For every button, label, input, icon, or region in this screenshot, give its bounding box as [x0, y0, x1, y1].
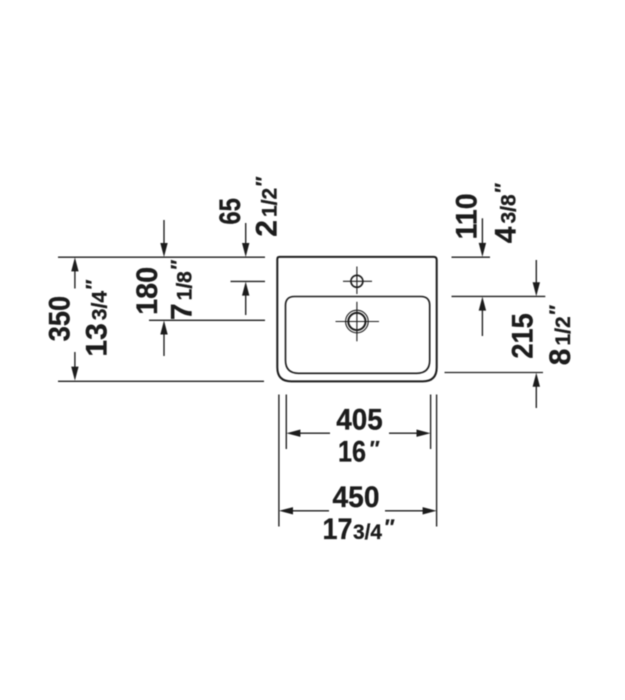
- dimension 350 lower arrowhead: [71, 367, 78, 381]
- extension line outer right bottom: [436, 395, 438, 527]
- dimension 65 upper arrowhead: [242, 243, 249, 257]
- svg-text:43/8″: 43/8″: [490, 183, 523, 243]
- extension line outer left bottom: [278, 395, 280, 527]
- dimension 215 upper arrowhead: [533, 282, 540, 296]
- dimension 110 lower arrow shaft: [481, 309, 483, 337]
- svg-text:350: 350: [43, 296, 76, 342]
- dimension 450 left arrowhead: [279, 507, 293, 514]
- washbasin inner rim outline: [286, 297, 430, 374]
- svg-text:133/4″: 133/4″: [81, 279, 114, 356]
- dimension 215 upper arrow shaft: [535, 260, 537, 285]
- dimension 450 left arrow shaft: [291, 510, 329, 512]
- svg-text:″: ″: [370, 437, 380, 460]
- svg-text:17: 17: [323, 513, 353, 546]
- extension line bottom edge left: [58, 380, 264, 382]
- drain outer circle: [346, 310, 369, 333]
- dimension 65 lower arrow shaft: [245, 294, 247, 316]
- dimension 450 right arrowhead: [423, 507, 437, 514]
- svg-text:16: 16: [338, 436, 366, 469]
- dimension 110 upper arrowhead: [479, 243, 486, 257]
- dimension 350 lower arrow shaft: [74, 352, 76, 369]
- dimension 65 upper arrow shaft: [245, 223, 247, 245]
- extension line inner rim top right: [452, 295, 546, 297]
- svg-text:65: 65: [214, 198, 247, 225]
- svg-text:110: 110: [450, 193, 483, 239]
- dimension 65 lower arrowhead: [242, 282, 249, 296]
- drain crosshair horizontal: [336, 321, 380, 323]
- dimension 450 right arrow shaft: [385, 510, 425, 512]
- extension line inner left bottom: [285, 395, 287, 450]
- dimension 215 lower arrow shaft: [535, 385, 537, 409]
- dimension 215 lower arrowhead: [533, 373, 540, 387]
- drain crosshair vertical: [356, 302, 358, 342]
- faucet hole crosshair horizontal: [343, 280, 372, 282]
- svg-text:″: ″: [385, 516, 395, 539]
- dimension 110 lower arrowhead: [479, 297, 486, 311]
- dimension 180 lower arrow shaft: [163, 333, 165, 357]
- dimension 180 lower arrowhead: [160, 321, 167, 335]
- washbasin outer body outline: [277, 257, 436, 382]
- dimension 350 upper arrowhead: [71, 257, 78, 271]
- dimension 405 left arrowhead: [286, 430, 300, 437]
- svg-text:215: 215: [506, 313, 539, 359]
- extension line inner right bottom: [430, 395, 432, 450]
- extension line faucet centerline left: [231, 280, 266, 282]
- dimension 180 upper arrow shaft: [163, 220, 165, 245]
- svg-text:450: 450: [333, 481, 380, 514]
- dimension 405 left arrow shaft: [299, 432, 331, 434]
- svg-text:180: 180: [131, 267, 164, 315]
- drain inner circle: [348, 313, 365, 330]
- svg-text:81/2″: 81/2″: [544, 305, 577, 365]
- extension line top edge right: [452, 256, 491, 258]
- dimension 180 upper arrowhead: [160, 243, 167, 257]
- dimension 405 right arrow shaft: [389, 432, 419, 434]
- svg-text:71/8″: 71/8″: [166, 260, 199, 320]
- svg-text:405: 405: [336, 403, 383, 436]
- dimension 350 upper arrow shaft: [74, 270, 76, 289]
- extension line drain centerline left: [149, 319, 265, 321]
- extension line inner rim bottom right: [445, 372, 544, 374]
- dimension 110 upper arrow shaft: [481, 218, 483, 245]
- faucet hole crosshair vertical: [356, 267, 358, 295]
- faucet hole circle: [351, 275, 363, 287]
- dimension 405 right arrowhead: [417, 430, 431, 437]
- svg-text:21/2″: 21/2″: [251, 176, 284, 236]
- extension line top edge left: [58, 256, 265, 258]
- svg-text:3/4: 3/4: [353, 521, 382, 544]
